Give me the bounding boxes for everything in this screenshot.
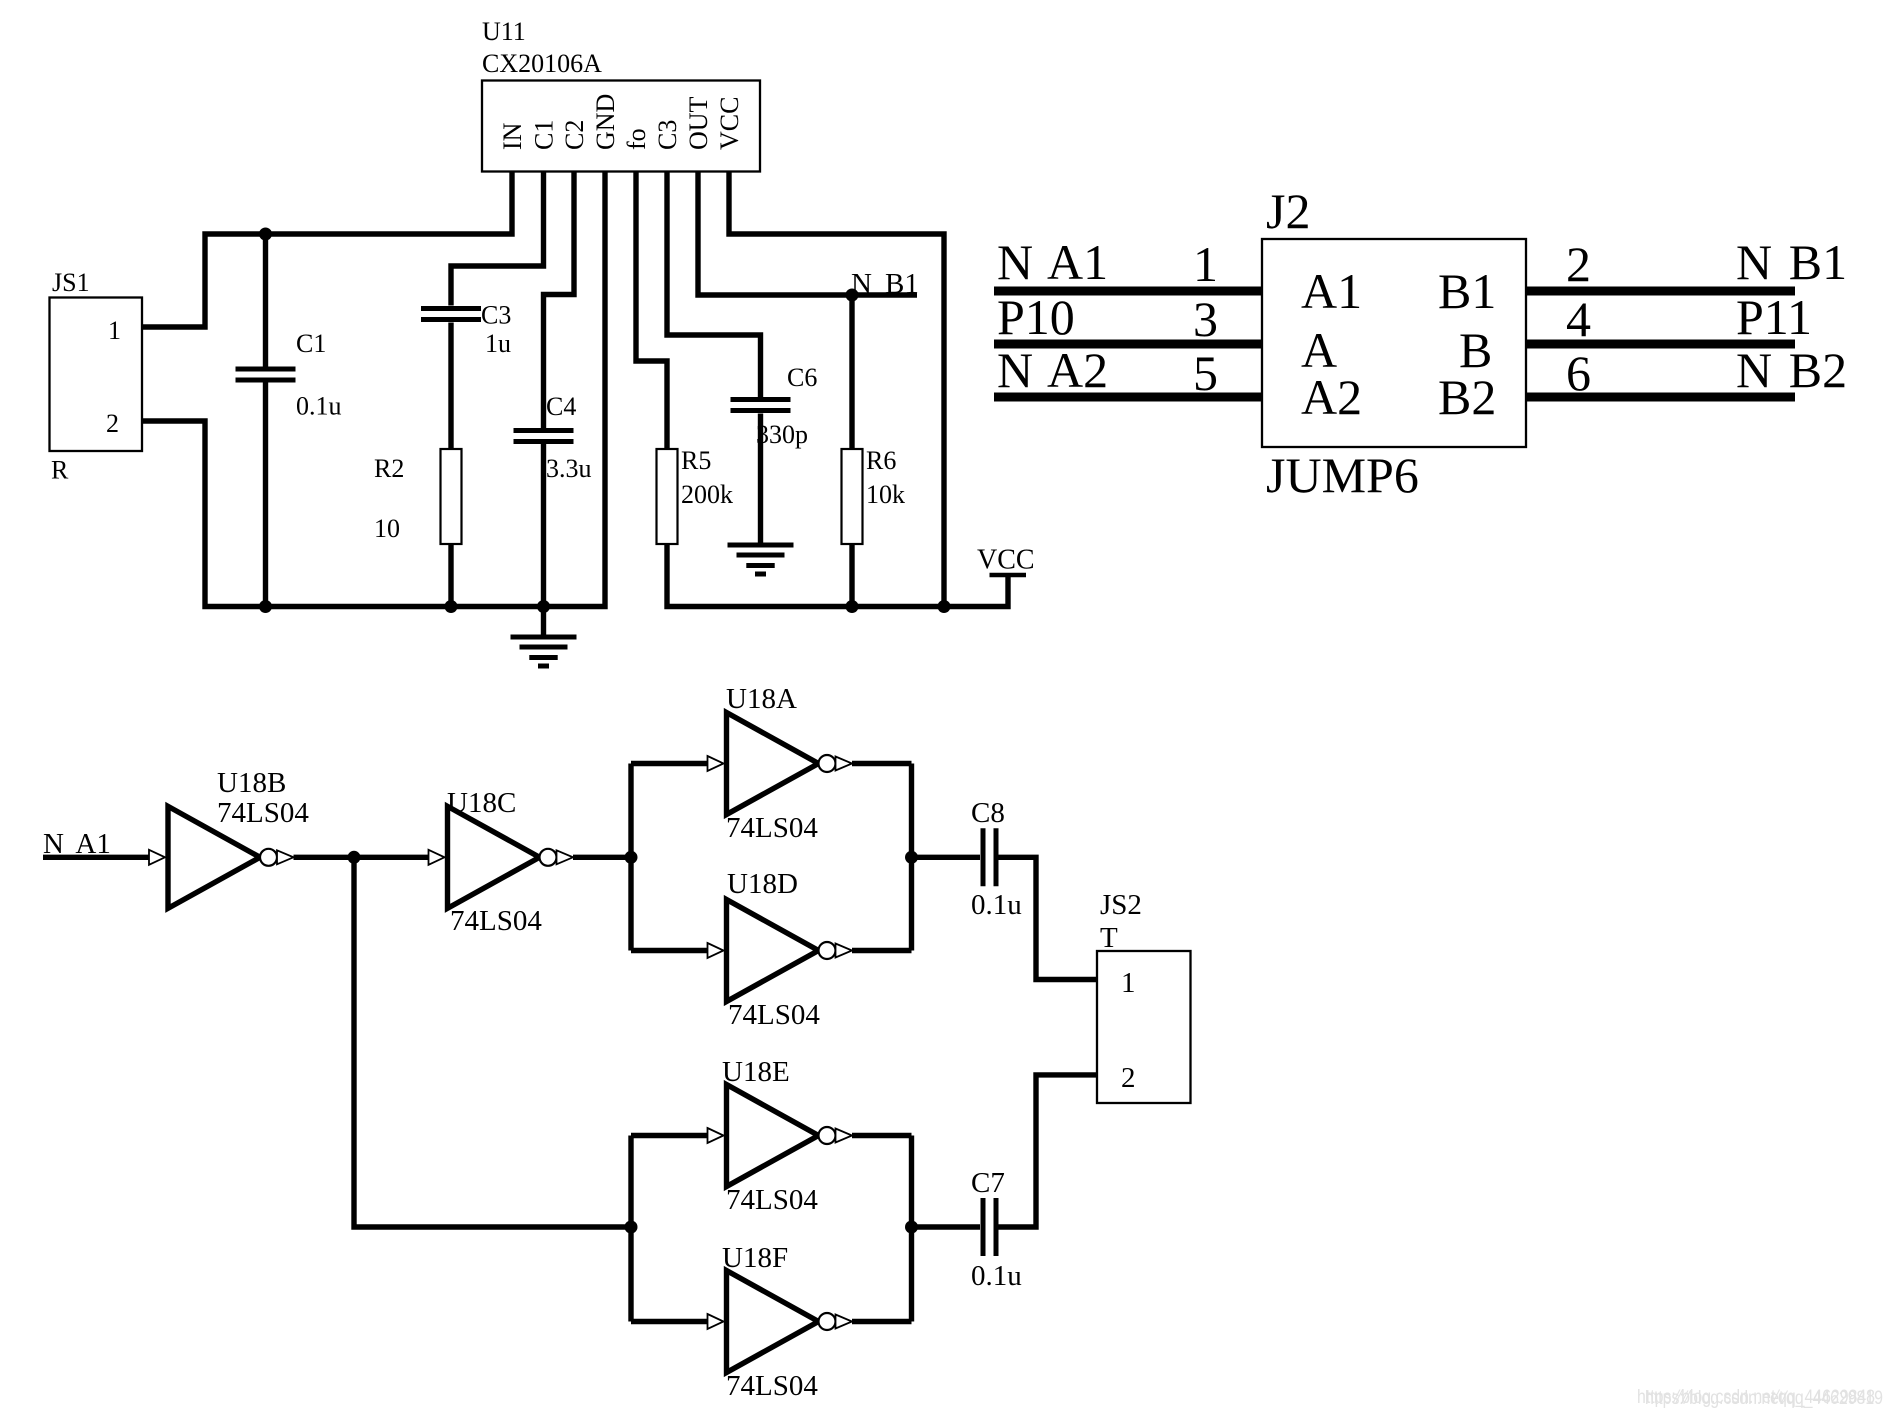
svg-text:200k: 200k	[681, 480, 733, 509]
svg-text:JS2: JS2	[1100, 889, 1142, 921]
svg-text:U18B: U18B	[217, 767, 286, 799]
svg-text:1: 1	[1193, 236, 1218, 292]
svg-text:N A1: N A1	[997, 234, 1108, 290]
svg-text:2: 2	[106, 409, 119, 438]
svg-text:U18E: U18E	[722, 1056, 790, 1088]
svg-text:N B1: N B1	[1736, 234, 1847, 290]
svg-text:74LS04: 74LS04	[450, 905, 542, 937]
svg-text:C3: C3	[481, 301, 511, 330]
svg-text:N A2: N A2	[997, 342, 1108, 398]
svg-text:3: 3	[1193, 291, 1218, 347]
svg-text:0.1u: 0.1u	[971, 1260, 1022, 1292]
svg-text:B2: B2	[1438, 369, 1496, 425]
svg-text:4: 4	[1566, 291, 1591, 347]
svg-text:R: R	[51, 456, 69, 485]
svg-text:2: 2	[1566, 236, 1591, 292]
svg-text:C2: C2	[560, 120, 589, 150]
svg-text:B1: B1	[1438, 263, 1496, 319]
svg-text:5: 5	[1193, 345, 1218, 401]
svg-text:GND: GND	[591, 94, 620, 150]
svg-text:A1: A1	[1301, 263, 1362, 319]
svg-text:C8: C8	[971, 797, 1005, 829]
svg-text:VCC: VCC	[715, 97, 744, 150]
svg-text:U18A: U18A	[726, 683, 797, 715]
svg-text:U11: U11	[482, 17, 526, 46]
svg-text:https:⁄⁄blog.csdn.net⁄qq_44629: https:⁄⁄blog.csdn.net⁄qq_44629819	[1645, 1388, 1883, 1409]
svg-text:330p: 330p	[756, 420, 808, 449]
svg-text:C3: C3	[653, 120, 682, 150]
svg-text:74LS04: 74LS04	[728, 999, 820, 1031]
svg-text:JS1: JS1	[52, 268, 90, 297]
svg-text:P11: P11	[1736, 289, 1812, 345]
svg-text:U18C: U18C	[447, 787, 516, 819]
svg-text:0.1u: 0.1u	[971, 889, 1022, 921]
svg-text:VCC: VCC	[977, 545, 1035, 576]
svg-text:P10: P10	[997, 289, 1075, 345]
svg-text:6: 6	[1566, 345, 1591, 401]
svg-text:U18F: U18F	[722, 1242, 788, 1274]
svg-text:74LS04: 74LS04	[726, 1370, 818, 1402]
svg-text:OUT: OUT	[684, 96, 713, 150]
svg-text:1: 1	[108, 316, 121, 345]
svg-text:74LS04: 74LS04	[726, 1184, 818, 1216]
svg-text:U18D: U18D	[727, 868, 798, 900]
svg-text:C7: C7	[971, 1167, 1005, 1199]
svg-text:C1: C1	[296, 329, 326, 358]
svg-text:3.3u: 3.3u	[546, 454, 592, 483]
svg-text:C6: C6	[787, 363, 817, 392]
svg-text:1u: 1u	[485, 329, 511, 358]
svg-text:A2: A2	[1301, 369, 1362, 425]
svg-text:IN: IN	[498, 122, 527, 150]
svg-text:JUMP6: JUMP6	[1266, 447, 1419, 503]
svg-text:R6: R6	[866, 446, 896, 475]
svg-text:C1: C1	[530, 120, 559, 150]
svg-text:N B1: N B1	[851, 268, 919, 300]
svg-text:fo: fo	[622, 128, 651, 150]
svg-text:J2: J2	[1266, 183, 1310, 239]
svg-text:C4: C4	[546, 392, 576, 421]
svg-text:1: 1	[1121, 967, 1136, 999]
svg-text:R5: R5	[681, 446, 711, 475]
svg-text:2: 2	[1121, 1062, 1136, 1094]
svg-text:74LS04: 74LS04	[217, 797, 309, 829]
svg-text:R2: R2	[374, 454, 404, 483]
svg-text:N B2: N B2	[1736, 342, 1847, 398]
svg-text:74LS04: 74LS04	[726, 812, 818, 844]
svg-text:0.1u: 0.1u	[296, 392, 342, 421]
svg-text:CX20106A: CX20106A	[482, 49, 602, 78]
svg-text:10k: 10k	[866, 480, 905, 509]
svg-text:10: 10	[374, 514, 400, 543]
svg-text:N A1: N A1	[43, 828, 111, 860]
svg-text:T: T	[1100, 922, 1118, 954]
